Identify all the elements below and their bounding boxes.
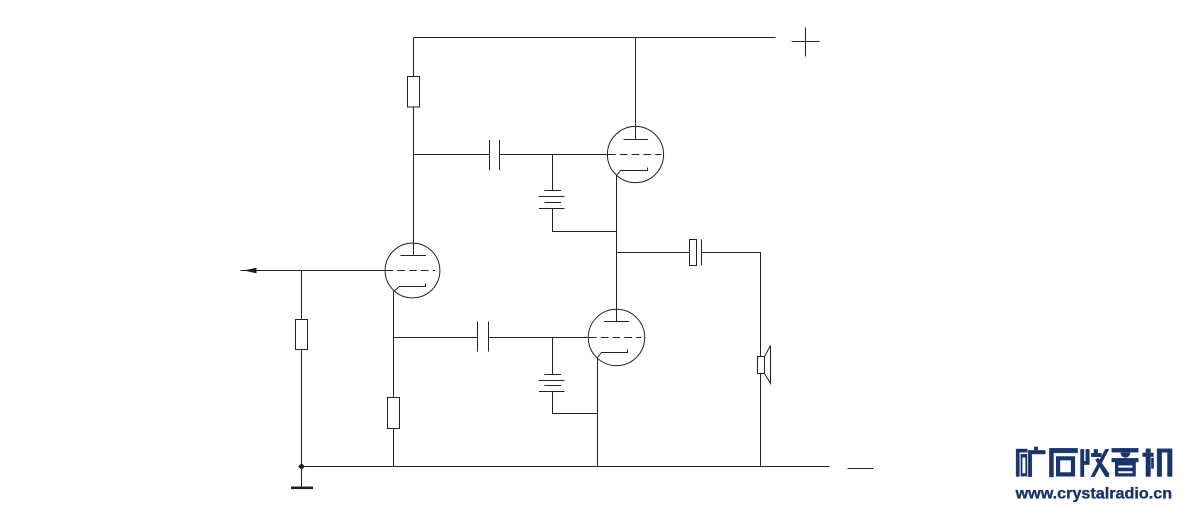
svg-text:www.crystalradio.cn: www.crystalradio.cn: [1015, 485, 1173, 502]
